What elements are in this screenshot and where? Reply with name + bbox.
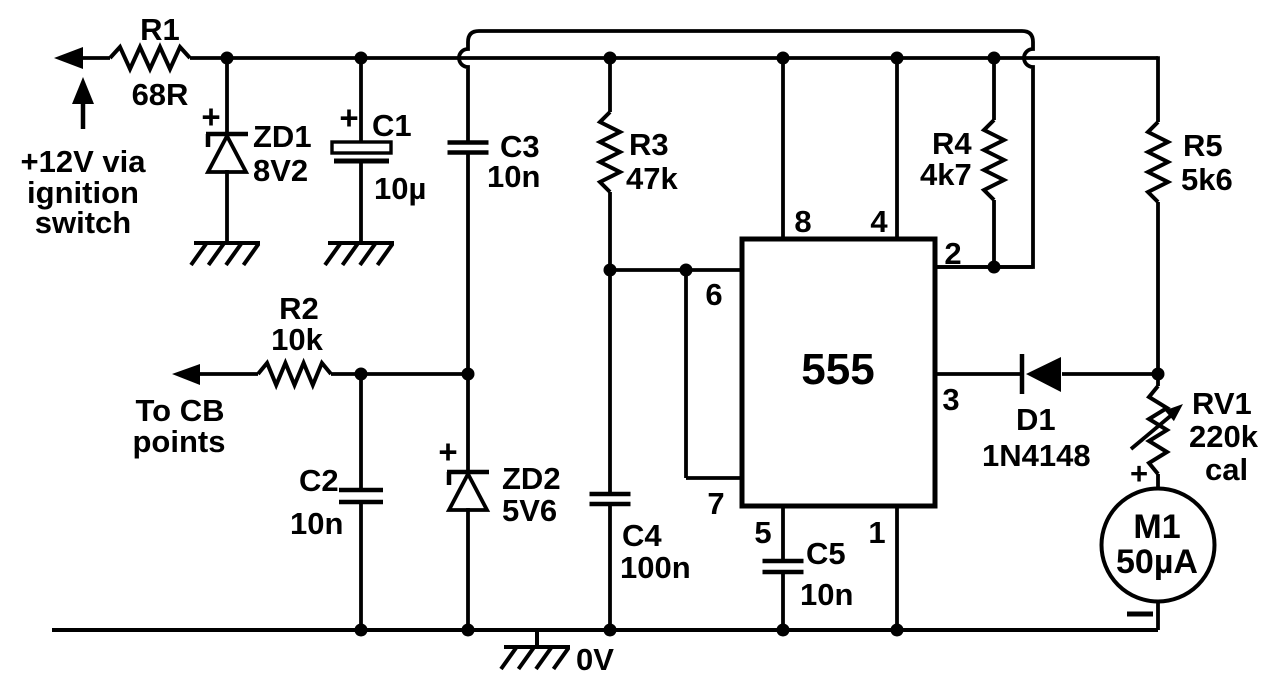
wire R2 to ZD2 <box>331 372 468 376</box>
svg-text:switch: switch <box>35 205 131 240</box>
wire ZD1 top <box>225 58 229 134</box>
svg-text:4: 4 <box>870 204 888 239</box>
svg-text:50µA: 50µA <box>1116 543 1198 581</box>
wire C1 bottom <box>359 163 363 243</box>
svg-text:5V6: 5V6 <box>502 493 557 528</box>
+12V supply arrow <box>72 77 94 104</box>
svg-text:10n: 10n <box>487 159 540 194</box>
wire R4 bottom <box>992 200 996 267</box>
svg-text:C4: C4 <box>622 518 662 553</box>
wire C2 top <box>359 374 363 490</box>
svg-text:D1: D1 <box>1016 402 1056 437</box>
wire pin 7 <box>684 270 688 478</box>
node pin6 pin7 junction <box>680 264 693 277</box>
svg-text:C1: C1 <box>372 108 412 143</box>
svg-text:ZD1: ZD1 <box>253 119 312 154</box>
capacitor C2 <box>339 488 383 493</box>
resistor R5 <box>1148 122 1168 202</box>
wire meter to 0V rail <box>1156 600 1160 630</box>
capacitor C3 <box>448 140 489 145</box>
zener diode ZD2 <box>447 470 489 475</box>
wire 0V rail <box>52 628 1158 632</box>
svg-text:555: 555 <box>801 345 874 394</box>
wire C2 bottom <box>359 502 363 630</box>
node ZD2 junction <box>462 368 475 381</box>
ground 0V <box>535 630 539 647</box>
svg-text:points: points <box>133 424 226 459</box>
svg-text:2: 2 <box>944 236 961 271</box>
wire top rail with crossover hops <box>459 31 1033 267</box>
svg-text:10n: 10n <box>290 506 343 541</box>
op-amp/timer U1 555 box <box>742 239 935 506</box>
wire D1 to node <box>1062 372 1158 376</box>
wire R5 top <box>1156 56 1160 122</box>
svg-text:R2: R2 <box>279 291 319 326</box>
wire pin 3 <box>935 372 1021 376</box>
resistor R2 <box>258 363 331 385</box>
node ZD2 0V <box>462 624 475 637</box>
diode D1 <box>1020 354 1025 394</box>
variable resistor RV1 <box>1149 386 1167 474</box>
svg-text:C5: C5 <box>806 536 846 571</box>
meter M1 <box>1102 489 1215 602</box>
node R3 C4 junction <box>604 264 617 277</box>
svg-text:R5: R5 <box>1183 128 1223 163</box>
svg-text:220k: 220k <box>1189 419 1259 454</box>
node pin8 junction <box>777 52 790 65</box>
wire R3 to pin6 node <box>608 192 612 270</box>
svg-text:To CB: To CB <box>136 393 225 428</box>
node pin4 junction <box>891 52 904 65</box>
svg-text:+: + <box>438 433 457 470</box>
wire ZD1 bottom <box>225 170 229 243</box>
node D1 RV1 junction <box>1152 368 1165 381</box>
node C2 0V <box>355 624 368 637</box>
svg-text:+12V via: +12V via <box>21 144 147 179</box>
wire pin 5 <box>781 506 785 561</box>
wire R4 top <box>992 58 996 120</box>
svg-text:ZD2: ZD2 <box>502 461 561 496</box>
svg-text:10k: 10k <box>271 322 323 357</box>
wire R3 top <box>608 58 612 112</box>
node C5 0V <box>777 624 790 637</box>
svg-text:8V2: 8V2 <box>253 153 308 188</box>
output arrow to CB points <box>172 364 200 385</box>
resistor R3 <box>600 112 620 192</box>
node pin2 R4 junction <box>988 261 1001 274</box>
svg-text:M1: M1 <box>1133 508 1180 546</box>
wire RV1 top <box>1156 374 1160 386</box>
svg-text:R1: R1 <box>140 12 180 47</box>
svg-text:8: 8 <box>794 204 811 239</box>
wire pin 4 <box>895 58 899 239</box>
svg-text:RV1: RV1 <box>1192 386 1252 421</box>
svg-text:C2: C2 <box>299 463 339 498</box>
capacitor C4 <box>590 492 631 497</box>
svg-text:cal: cal <box>1205 452 1248 487</box>
svg-text:3: 3 <box>942 382 959 417</box>
RV1 arrow <box>1131 413 1174 449</box>
wire C4 top <box>608 270 612 494</box>
wire R5 bottom <box>1156 202 1160 374</box>
svg-text:47k: 47k <box>626 161 678 196</box>
zener diode ZD1 <box>206 132 248 137</box>
node C2 junction <box>355 368 368 381</box>
capacitor C5 <box>763 559 804 564</box>
wire main +V rail <box>190 56 1158 60</box>
wire C5 bottom <box>781 572 785 630</box>
resistor R4 <box>984 120 1004 200</box>
svg-text:+: + <box>201 98 220 135</box>
svg-text:0V: 0V <box>576 642 614 677</box>
input arrow to ignition switch <box>54 47 83 69</box>
svg-text:R3: R3 <box>629 127 669 162</box>
node ZD1 junction <box>221 52 234 65</box>
wire C3 bottom <box>466 155 470 375</box>
wire pin 1 <box>895 506 899 630</box>
wire pin 8 <box>781 58 785 239</box>
svg-text:5: 5 <box>754 515 771 550</box>
node pin1 0V <box>891 624 904 637</box>
svg-text:100n: 100n <box>620 550 691 585</box>
resistor R1 <box>110 47 190 69</box>
svg-text:1: 1 <box>868 515 885 550</box>
wire pin 2 <box>935 265 1033 269</box>
ground C1 <box>328 241 394 245</box>
capacitor C1 <box>332 142 391 153</box>
svg-text:5k6: 5k6 <box>1181 162 1233 197</box>
wire ZD2 bottom <box>466 508 470 630</box>
svg-text:6: 6 <box>705 277 722 312</box>
svg-text:+: + <box>339 99 358 136</box>
node R4 junction <box>988 52 1001 65</box>
wire RV1 to meter <box>1156 474 1160 490</box>
node C1 junction <box>355 52 368 65</box>
wire pin 6 <box>610 268 742 272</box>
svg-text:1N4148: 1N4148 <box>982 438 1091 473</box>
svg-text:68R: 68R <box>132 77 189 112</box>
svg-text:10n: 10n <box>800 577 853 612</box>
svg-text:10µ: 10µ <box>374 171 426 206</box>
wire C4 bottom <box>608 504 612 630</box>
svg-text:4k7: 4k7 <box>920 157 972 192</box>
svg-text:7: 7 <box>707 486 724 521</box>
wire C1 top <box>359 58 363 142</box>
label M1 minus <box>1127 612 1153 617</box>
ground ZD1 <box>194 241 260 245</box>
node R3 junction <box>604 52 617 65</box>
wire ZD2 top <box>466 374 470 472</box>
node C4 0V <box>604 624 617 637</box>
svg-text:+: + <box>1130 456 1148 491</box>
svg-text:R4: R4 <box>932 126 972 161</box>
